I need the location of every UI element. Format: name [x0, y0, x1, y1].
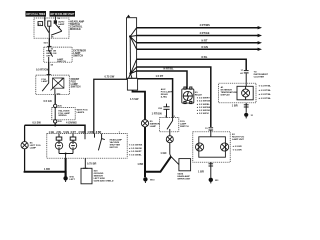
cluster illumination lamp — [242, 86, 250, 99]
pin labels S5 — [165, 116, 176, 118]
svg-text:SWITCH: SWITCH — [180, 126, 189, 128]
label lamp E9 — [150, 121, 160, 128]
svg-text:N RT/BL: N RT/BL — [164, 67, 174, 71]
wire E5 to ground bus — [24, 149, 26, 171]
connector ticks right lamp feed — [205, 128, 213, 130]
svg-text:X26: X26 — [58, 121, 63, 123]
svg-text:6 RT: 6 RT — [71, 131, 77, 134]
svg-text:◄ 0.5 SW/VI: ◄ 0.5 SW/VI — [196, 112, 209, 115]
svg-text:15: 15 — [58, 18, 61, 20]
svg-text:◄ 0.5 SW/GE: ◄ 0.5 SW/GE — [196, 109, 210, 112]
wire E1 to ground W10 — [65, 158, 67, 177]
wire N RT/BL to relay — [137, 67, 187, 89]
svg-text:◄ 0.5 BR: ◄ 0.5 BR — [232, 149, 242, 152]
wire 1.5 SW from fuse box bottom — [130, 90, 145, 120]
label inside cluster — [221, 86, 238, 97]
wire fuse to right fog lamp — [137, 67, 211, 127]
header HOT AT ALL TIMES — [26, 11, 47, 17]
wire 0.5 SW horizontal run — [25, 125, 85, 133]
svg-text:◄ 0.5 RT/BL: ◄ 0.5 RT/BL — [258, 85, 272, 88]
fog lamp switch S5 dashed box — [160, 118, 179, 132]
switch S29 box — [81, 168, 92, 184]
wire from header1 to fuse F1 — [44, 17, 46, 21]
svg-text:1 BR: 1 BR — [44, 167, 50, 171]
fuse box A lower terminal block — [127, 78, 137, 90]
svg-text:RELAY: RELAY — [195, 94, 203, 97]
wire to switch module box — [171, 157, 179, 165]
fuse box A vertical bus wire — [129, 37, 131, 74]
lamp E2b — [221, 143, 229, 151]
ground W10 center — [143, 177, 155, 183]
label inside S3 — [41, 79, 48, 83]
label right of S5 — [180, 121, 189, 128]
svg-text:1 BR: 1 BR — [232, 103, 238, 107]
svg-text:LAMP: LAMP — [30, 146, 37, 149]
svg-text:4 RT/WS: 4 RT/WS — [200, 23, 211, 27]
svg-text:◄ 0.5 GN/BL: ◄ 0.5 GN/BL — [128, 154, 142, 157]
svg-text:0.5 GN: 0.5 GN — [44, 99, 52, 103]
ground W10 left — [63, 176, 75, 182]
svg-text:HOT IN RUN AND START: HOT IN RUN AND START — [50, 12, 74, 16]
component label right of X26 — [77, 110, 88, 114]
svg-text:SWITCH: SWITCH — [71, 85, 81, 88]
junction Y node — [170, 154, 171, 156]
svg-text:◄ 0.5 SW/BL: ◄ 0.5 SW/BL — [196, 103, 210, 106]
component label right of S2 — [73, 49, 86, 57]
ground G31 cluster — [244, 113, 254, 119]
svg-text:N RT: N RT — [202, 38, 208, 42]
svg-text:7: 7 — [119, 132, 121, 134]
wire N BL to instrument cluster — [137, 55, 247, 70]
ground bus wire 1 BR — [25, 171, 66, 177]
cluster inner box — [237, 86, 253, 100]
relay K9 fog lamp relay — [182, 89, 194, 104]
svg-text:3 SW: 3 SW — [78, 131, 85, 134]
svg-text:4 WS: 4 WS — [87, 131, 93, 134]
wire through X26 — [54, 108, 56, 120]
arrow labels right of relay — [196, 97, 211, 116]
svg-text:5 GN: 5 GN — [63, 131, 69, 134]
relay K9 pin squares — [184, 87, 192, 89]
wire to lamp E5 — [24, 125, 26, 141]
wire S5 to indicator lamp — [169, 132, 171, 136]
wire S2 to S3, 0.5 RT/GN — [48, 62, 50, 75]
label below module box — [177, 172, 191, 180]
connector ticks below cluster — [244, 105, 249, 107]
svg-text:4 RT/GE: 4 RT/GE — [200, 31, 210, 35]
relay name label — [161, 88, 173, 99]
bus wire N RT — [137, 38, 262, 44]
svg-text:◄ 0.5 BR: ◄ 0.5 BR — [232, 145, 242, 148]
svg-text:1 GN: 1 GN — [160, 151, 166, 155]
wire fuse F3 to bottom pin — [48, 26, 50, 38]
switch contact S3 — [42, 75, 49, 91]
svg-text:58: 58 — [51, 64, 54, 66]
svg-text:0.5 RT/GN: 0.5 RT/GN — [36, 68, 48, 72]
pin tick 30 — [47, 45, 51, 47]
wire from header2 to fuse F2 — [54, 17, 56, 21]
svg-text:1 BR: 1 BR — [137, 162, 143, 166]
svg-text:0.75 BR: 0.75 BR — [87, 162, 97, 166]
headlamp switch S3 dashed box — [36, 75, 70, 95]
wire into cluster box — [245, 74, 247, 87]
svg-text:◄ 0.5 RT/BL: ◄ 0.5 RT/BL — [258, 89, 272, 92]
wire 0.5 GN down — [54, 95, 56, 105]
component label right of S3 — [71, 78, 81, 89]
wire 0.75 SW to left lamp box — [94, 75, 128, 134]
svg-text:1 BR: 1 BR — [198, 169, 204, 173]
fuse F2 (filled) — [54, 20, 57, 24]
svg-text:31: 31 — [251, 115, 254, 117]
fuse box A triangle marker — [127, 15, 131, 18]
relay K9 label — [195, 92, 203, 97]
wire 0.75 BR to switch S29 — [85, 158, 96, 168]
switch contact S1a — [45, 18, 49, 33]
exterior lamp switch S2 dashed box — [44, 47, 72, 62]
svg-text:4 GN/WS: 4 GN/WS — [66, 121, 77, 125]
svg-text:1 RT/GN: 1 RT/GN — [152, 111, 162, 115]
svg-text:1.5 SW: 1.5 SW — [130, 97, 139, 101]
switch contact in E1 — [85, 134, 105, 151]
svg-text:LEFT: LEFT — [69, 179, 75, 181]
pin tick S3 top — [47, 74, 51, 76]
connector ticks instrument cluster feed — [240, 70, 248, 75]
right lamp inner box — [199, 137, 226, 157]
svg-text:◄ 0.5 GN/GE: ◄ 0.5 GN/GE — [128, 147, 142, 150]
svg-text:CLUSTER: CLUSTER — [254, 77, 265, 79]
pin labels above box E1 — [49, 131, 121, 134]
wire cluster to ground — [245, 103, 247, 113]
fuse box fan wires upper — [130, 28, 136, 50]
svg-text:A1: A1 — [240, 72, 244, 75]
svg-text:WIPER UNIT: WIPER UNIT — [177, 178, 191, 180]
svg-text:LAMP: LAMP — [150, 125, 157, 128]
indicator lamp E17 — [166, 136, 173, 143]
svg-text:HOT AT ALL TIMES: HOT AT ALL TIMES — [26, 12, 45, 16]
svg-text:MODULE: MODULE — [70, 28, 81, 31]
lamp E2a — [196, 143, 204, 151]
svg-text:N BL: N BL — [202, 55, 208, 59]
svg-text:DISPLAY: DISPLAY — [221, 93, 231, 96]
wire to ground bus (thick) — [145, 157, 171, 172]
svg-text:MOTOR: MOTOR — [110, 147, 119, 149]
svg-text:2 BL: 2 BL — [56, 131, 62, 134]
svg-text:LAMPS: LAMPS — [77, 111, 85, 114]
fuse box hub node 1 — [129, 35, 131, 37]
svg-text:W10: W10 — [150, 179, 155, 181]
wire E9 to ground (thick) — [144, 127, 146, 177]
fuse box A outline — [127, 18, 137, 79]
label lamp E5 — [30, 143, 41, 150]
svg-text:X30: X30 — [158, 108, 163, 110]
ground W3 right — [209, 178, 219, 184]
label inside S2 — [46, 50, 57, 58]
svg-text:◄ 0.5 GN/WS: ◄ 0.5 GN/WS — [128, 143, 142, 146]
svg-text:◄ 0.5 RT/BL: ◄ 0.5 RT/BL — [258, 97, 272, 100]
lamp E5 left fog lamp — [21, 142, 28, 149]
inline connector X26 bottom — [54, 120, 57, 123]
arrow labels right of E1 — [128, 143, 142, 156]
svg-text:◄ 0.5 SW/WS: ◄ 0.5 SW/WS — [196, 106, 211, 109]
fuse box hub node 2 — [129, 72, 131, 74]
inline connector X26 top — [54, 104, 57, 107]
wire S1 to S2 — [48, 38, 50, 47]
note TO INSTRUMENT CLUSTER — [254, 72, 269, 79]
joining wire under lamps — [59, 154, 73, 159]
svg-text:SWITCH: SWITCH — [73, 54, 83, 57]
lamp E9 on 1.5 SW wire — [141, 120, 148, 127]
switch contact S2 — [49, 47, 53, 62]
wire to junction — [54, 123, 56, 125]
label right of S29 — [94, 171, 114, 183]
lamp E1e left — [55, 140, 62, 153]
connector dashed box X26 — [52, 108, 75, 120]
switch unit S1 dashed box — [34, 18, 69, 38]
svg-text:8 BR: 8 BR — [96, 131, 102, 134]
wire S3 bottom pin — [54, 89, 56, 95]
svg-text:N GN: N GN — [202, 45, 209, 49]
svg-text:LAMP: LAMP — [58, 23, 65, 26]
svg-text:◄ 0.5 SW/RT: ◄ 0.5 SW/RT — [196, 97, 210, 100]
svg-text:15: 15 — [205, 128, 208, 130]
headlamp symbol box with X — [51, 78, 64, 90]
svg-text:56b: 56b — [57, 94, 61, 96]
label inside E1 right — [110, 139, 123, 150]
label right of E2 — [232, 134, 245, 141]
bus wire N GN — [137, 45, 262, 51]
svg-text:◄ 0.5 RT/BL: ◄ 0.5 RT/BL — [258, 93, 272, 96]
svg-text:WIRING: WIRING — [58, 115, 66, 117]
switch over module box — [179, 159, 191, 171]
inline connector on fog switch feed — [163, 104, 169, 118]
svg-text:LAMP: LAMP — [41, 80, 48, 83]
lamp E1f right — [69, 140, 76, 153]
right fog lamp dashed box E2 — [193, 132, 230, 162]
bus wire 4 RT/GE — [137, 31, 262, 37]
label inside X26 — [58, 109, 70, 117]
svg-text:LAMP UNIT: LAMP UNIT — [232, 138, 245, 141]
wire into right lamp box — [210, 130, 212, 137]
wire E2 to ground — [210, 162, 212, 177]
svg-text:SWITCH: SWITCH — [57, 61, 66, 63]
svg-text:S2/1: S2/1 — [44, 42, 49, 44]
switch contact S1b — [51, 24, 62, 35]
arrow labels right of cluster — [258, 85, 272, 101]
switch contact S5 — [167, 118, 173, 132]
svg-text:1 GE: 1 GE — [49, 131, 55, 134]
svg-text:0.5 SW: 0.5 SW — [32, 121, 41, 125]
connector ticks below E2 — [209, 164, 214, 166]
arrow labels right of E2 — [232, 145, 242, 151]
svg-text:◄ 0.5 SW/GN: ◄ 0.5 SW/GN — [196, 100, 210, 103]
header HOT IN RUN AND START — [50, 11, 76, 17]
wire E17 down 1 GN — [160, 143, 169, 156]
junction node — [54, 124, 56, 126]
fuse box fan wires lower — [129, 59, 137, 78]
instrument cluster dashed box A1 — [219, 83, 256, 103]
bus wire 4 RT/WS — [137, 23, 262, 29]
left lamp assembly dashed box E1 — [47, 134, 127, 159]
fuse F3 — [48, 21, 51, 26]
svg-text:GATE AND SHIELD: GATE AND SHIELD — [94, 180, 114, 183]
svg-text:(LHD): (LHD) — [161, 96, 167, 98]
svg-text:1.5 RT: 1.5 RT — [156, 74, 164, 78]
svg-text:W3: W3 — [215, 180, 219, 182]
fuse F1 — [38, 22, 43, 26]
svg-text:◄ 0.5 GN/RT: ◄ 0.5 GN/RT — [128, 150, 142, 153]
connector sockets in E1 — [56, 134, 76, 141]
component label right of S1 — [70, 20, 84, 31]
svg-text:0.75 SW: 0.75 SW — [105, 75, 115, 79]
wire 1.5 RT to fog switch — [138, 74, 173, 118]
